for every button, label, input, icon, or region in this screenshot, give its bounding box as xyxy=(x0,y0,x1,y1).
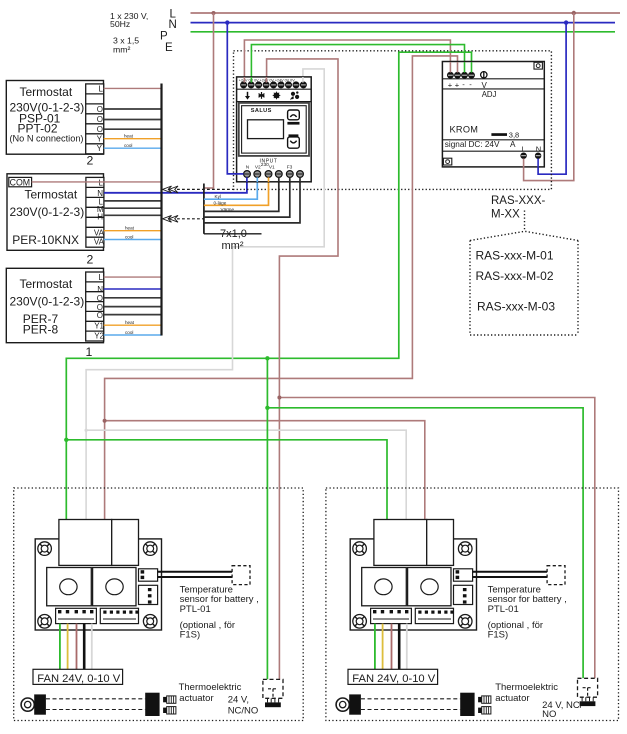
icon fan xyxy=(291,91,300,99)
svg-text:3,8: 3,8 xyxy=(509,131,519,140)
wire T1 Y heat xyxy=(104,138,162,140)
SALUS icon row separator xyxy=(237,101,312,103)
svg-text:L: L xyxy=(99,178,104,187)
thermostat T1 terminal column xyxy=(86,84,104,154)
cable bundle vertical 7-core xyxy=(203,184,205,234)
wire brown branch to right actuator xyxy=(279,398,594,679)
thermostat T1 terminal labels xyxy=(97,85,104,154)
svg-text:O: O xyxy=(97,294,103,303)
dashed arrow to bus upper xyxy=(163,186,234,193)
label thermoelectric actuator left xyxy=(179,682,259,716)
svg-text:Y: Y xyxy=(97,135,103,144)
svg-text:0-läge: 0-läge xyxy=(214,201,227,206)
wire T1 O2 xyxy=(104,119,162,121)
wire green branch to right fan unit xyxy=(66,440,387,520)
net labels L N P E xyxy=(160,8,177,54)
wire T3 N xyxy=(104,288,162,290)
svg-text:Termostat: Termostat xyxy=(25,187,78,201)
wire stub N supply into SALUS xyxy=(236,173,244,175)
dashed enclosure room 2 xyxy=(326,488,619,721)
svg-text:M-XX: M-XX xyxy=(491,209,520,221)
wire KROM+ to SALUS +24V xyxy=(244,40,450,80)
wire T3 O1 xyxy=(104,297,162,299)
fan control unit 1 xyxy=(21,520,250,717)
SALUS button up xyxy=(287,110,299,125)
wire SALUS +24V out to actuators (brown) xyxy=(267,59,338,680)
thermostat T2 terminal labels xyxy=(94,178,105,246)
svg-text:PTL-01: PTL-01 xyxy=(180,604,211,615)
SALUS LCD display xyxy=(248,120,284,139)
svg-text:F3: F3 xyxy=(287,165,293,171)
supply label 1x230V 50Hz xyxy=(110,11,148,55)
cable bus vertical xyxy=(160,84,162,336)
svg-text:cool: cool xyxy=(125,234,133,239)
cable designation line xyxy=(204,233,262,235)
wire SALUS 0V to fan units (white) xyxy=(86,69,324,520)
svg-text:VA: VA xyxy=(94,228,105,237)
wire SALUS V2 (light blue) xyxy=(204,177,257,200)
svg-text:mm²: mm² xyxy=(113,44,130,54)
fan control unit 2 xyxy=(336,520,565,717)
svg-text:Thermoelektric: Thermoelektric xyxy=(179,682,242,693)
icon snowflake xyxy=(259,92,265,99)
svg-text:L: L xyxy=(99,273,104,282)
wire T2 H xyxy=(104,214,162,216)
svg-text:actuator: actuator xyxy=(495,693,529,704)
wire KROM- 24V minus to fan units (green) xyxy=(66,52,471,519)
svg-text:Y1: Y1 xyxy=(94,321,104,330)
svg-text:(No N connection): (No N connection) xyxy=(10,133,84,144)
SALUS front panel outer xyxy=(239,103,309,156)
thermostat T3 terminal column xyxy=(86,272,104,341)
wire KROM+ 24V plus to fan units (brown) xyxy=(105,56,458,520)
icon sun xyxy=(273,92,281,100)
node white junction at 430 xyxy=(85,429,88,432)
node N-drop junction xyxy=(225,20,229,24)
KROM output screws L N xyxy=(520,153,541,159)
svg-text:O: O xyxy=(97,311,103,320)
KROM current bar xyxy=(491,133,507,136)
svg-text:2: 2 xyxy=(87,253,94,267)
svg-text:V1: V1 xyxy=(269,165,275,171)
wire SALUS V1 (orange) xyxy=(204,177,269,206)
thermostat T1 box PSP-01/PPT-02 xyxy=(6,81,103,155)
wire green to left actuator xyxy=(266,358,268,679)
wire brown branch to right fan unit xyxy=(105,421,425,520)
wire T3 O2 xyxy=(104,306,162,308)
svg-text:N: N xyxy=(246,165,250,171)
svg-text:F1S): F1S) xyxy=(488,629,509,640)
svg-text:SALUS: SALUS xyxy=(251,108,272,114)
wire T2 VA cool xyxy=(104,239,162,241)
node brown junction at 397 xyxy=(277,396,281,400)
KROM polarity labels xyxy=(448,80,472,90)
svg-text:Termostat: Termostat xyxy=(20,277,73,291)
svg-text:NO: NO xyxy=(542,709,556,720)
svg-text:N: N xyxy=(169,19,177,31)
SALUS bottom screw terminals x6 xyxy=(244,171,304,178)
wire stubs into KROM terminals xyxy=(450,62,538,168)
wire N to KROM N terminal xyxy=(538,23,566,175)
wire supply PE line xyxy=(191,31,616,33)
RAS dotted stub xyxy=(524,211,526,232)
svg-text:L: L xyxy=(99,85,104,94)
wire SALUS F3 black 2 xyxy=(204,177,290,218)
KROM rule 2 xyxy=(442,88,544,90)
wire supply L line xyxy=(191,12,621,14)
svg-text:Kyl: Kyl xyxy=(215,194,221,199)
actuator terminal connector left xyxy=(263,679,283,707)
KROM rule 1 xyxy=(442,78,544,80)
KROM mount hole bottom left xyxy=(443,158,451,165)
COM box on T2 xyxy=(9,177,32,187)
svg-text:F1S): F1S) xyxy=(180,629,201,640)
svg-text:H: H xyxy=(97,213,103,222)
svg-text:+: + xyxy=(448,81,453,90)
svg-text:signal DC: 24V: signal DC: 24V xyxy=(445,140,500,149)
svg-text:RAS-xxx-M-03: RAS-xxx-M-03 xyxy=(477,300,555,314)
wire T1 L xyxy=(104,87,162,89)
icon down-arrow xyxy=(245,92,250,100)
node L-right junction xyxy=(572,11,576,15)
svg-text:Värme: Värme xyxy=(221,207,235,212)
KROM mount hole top right xyxy=(534,62,542,69)
wire T2 N to SALUS (blue) xyxy=(104,177,247,193)
dashed enclosure room 1 xyxy=(14,488,304,721)
svg-text:heat: heat xyxy=(124,134,134,139)
controller U1 SALUS body xyxy=(237,77,312,182)
thermostat T2 box PER-10KNX xyxy=(7,174,104,251)
wire green branch to right actuator xyxy=(267,408,583,679)
SALUS top screw terminals x9 xyxy=(240,81,307,88)
wire T3 Y1 heat xyxy=(104,324,162,326)
node brown junction at 421 xyxy=(103,419,107,423)
RAS dotted option box xyxy=(470,231,578,335)
svg-text:50Hz: 50Hz xyxy=(110,19,130,29)
svg-text:N: N xyxy=(536,145,541,154)
svg-text:COM: COM xyxy=(10,177,31,187)
svg-text:heat: heat xyxy=(125,226,135,231)
svg-text:A: A xyxy=(510,140,516,149)
svg-text:mm²: mm² xyxy=(222,240,244,252)
SALUS top strip separator xyxy=(237,88,312,90)
SALUS front panel inner xyxy=(242,106,307,153)
thermostat T3 terminal labels xyxy=(94,273,104,340)
wire L to cable bundle xyxy=(204,13,214,188)
svg-text:N: N xyxy=(97,285,103,294)
SALUS button down xyxy=(288,134,300,148)
wire supply N line xyxy=(191,22,616,24)
svg-text:VA: VA xyxy=(94,237,105,246)
wire stubs from SALUS bottom terminals xyxy=(247,177,300,182)
dotted enclosure SALUS/KROM xyxy=(234,51,552,190)
dashed arrow to bus lower xyxy=(163,215,204,222)
node green junction at 358 xyxy=(265,356,269,360)
svg-text:RAS-xxx-M-01: RAS-xxx-M-01 xyxy=(476,249,554,263)
svg-text:PER-10KNX: PER-10KNX xyxy=(12,233,79,247)
wire L to KROM L terminal xyxy=(524,13,574,181)
thermostat T3 box PER-7/PER-8 xyxy=(6,268,103,342)
wire T3 O3 xyxy=(104,314,162,316)
svg-text:7x1,0: 7x1,0 xyxy=(220,228,247,240)
svg-text:cool: cool xyxy=(125,330,133,335)
wire T1 O1 xyxy=(104,108,162,110)
wire SALUS F3 black 1 xyxy=(204,177,279,212)
KROM rule 3 xyxy=(442,139,544,141)
power supply KROM body xyxy=(442,62,544,167)
svg-text:O: O xyxy=(97,115,103,124)
svg-text:24 V,: 24 V, xyxy=(228,695,249,706)
wire N to SALUS N terminal xyxy=(227,23,247,174)
wire T3 Y2 cool xyxy=(104,334,162,336)
svg-text:PER-8: PER-8 xyxy=(23,323,59,337)
wire T1 Y cool xyxy=(104,147,162,149)
KROM input screw terminals x4 xyxy=(447,72,475,79)
svg-text:2: 2 xyxy=(87,154,94,168)
wire T1 O3 xyxy=(104,128,162,130)
svg-text:L: L xyxy=(522,145,526,154)
svg-text:E: E xyxy=(165,42,173,54)
svg-text:Y2: Y2 xyxy=(94,331,104,340)
svg-text:O: O xyxy=(97,125,103,134)
svg-text:1: 1 xyxy=(86,345,93,359)
svg-text:+: + xyxy=(455,81,460,90)
svg-text:actuator: actuator xyxy=(179,693,213,704)
wire stubs into SALUS top terminals xyxy=(244,77,303,83)
KROM potentiometer xyxy=(481,71,487,79)
svg-text:KROM: KROM xyxy=(450,124,479,134)
svg-text:Termostat: Termostat xyxy=(20,85,73,99)
svg-text:Thermoelektric: Thermoelektric xyxy=(495,682,558,693)
wire SALUS F3 black 3 xyxy=(204,177,300,223)
node N-right junction xyxy=(564,20,568,24)
svg-text:230V(0-1-2-3): 230V(0-1-2-3) xyxy=(10,205,85,219)
node L-drop junction xyxy=(212,11,216,15)
svg-text:RAS-XXX-: RAS-XXX- xyxy=(491,195,545,207)
svg-text:O: O xyxy=(97,105,103,114)
svg-text:heat: heat xyxy=(125,320,135,325)
wire T3 L xyxy=(104,276,162,278)
svg-text:230V(0-1-2-3): 230V(0-1-2-3) xyxy=(10,294,85,308)
wire white branch to right fan unit xyxy=(86,430,406,519)
wire T2 L from COM xyxy=(32,181,162,183)
svg-text:NC/NO: NC/NO xyxy=(228,705,259,716)
wire T2 M xyxy=(104,207,162,209)
svg-text:cool: cool xyxy=(124,143,132,148)
label temperature sensor right xyxy=(488,584,567,640)
KROM rule 4 xyxy=(442,150,544,152)
svg-text:ADJ: ADJ xyxy=(482,90,497,99)
svg-text:RAS-xxx-M-02: RAS-xxx-M-02 xyxy=(476,269,554,283)
wire T2 VA heat xyxy=(104,230,162,232)
wire KROM- to SALUS 0V xyxy=(251,45,464,80)
svg-text:PTL-01: PTL-01 xyxy=(488,604,519,615)
thermostat T2 terminal column xyxy=(86,177,104,247)
node green junction at 408 xyxy=(265,406,269,410)
svg-text:Y: Y xyxy=(97,144,103,153)
wire T2 L2 xyxy=(104,200,162,202)
label temperature sensor left xyxy=(180,584,259,640)
actuator terminal connector right xyxy=(578,678,598,706)
node green junction at 440 xyxy=(64,438,68,442)
label thermoelectric actuator right xyxy=(495,682,583,720)
svg-text:P: P xyxy=(160,31,168,43)
